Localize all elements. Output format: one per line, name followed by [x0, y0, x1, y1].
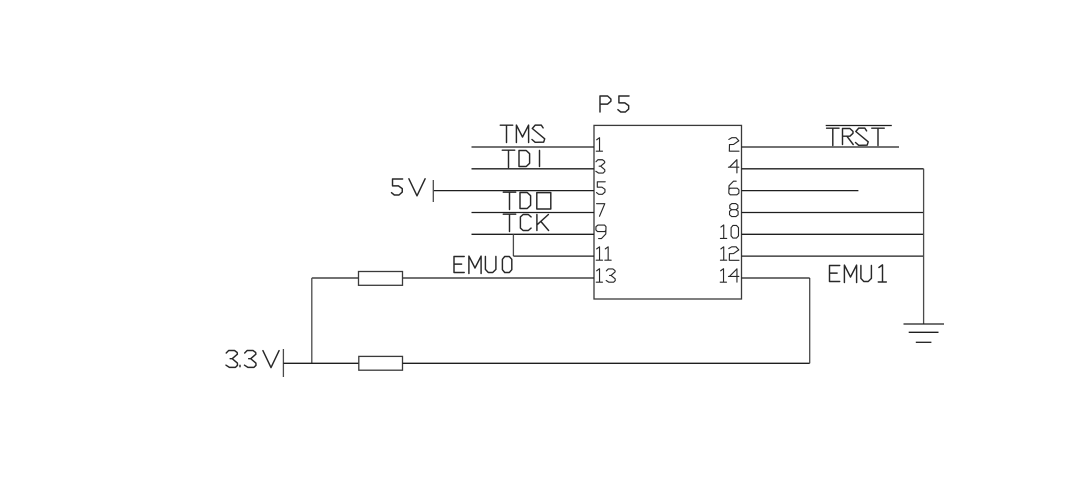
wire vertical up to pin 14 [809, 278, 811, 363]
wire to pin 11 [513, 255, 594, 257]
pin 2 number [729, 138, 739, 152]
wire TDO to pin 7 [472, 212, 595, 214]
net label TCK [503, 214, 548, 231]
wire pin 8 to ground bus [742, 212, 924, 214]
power label 3.3V [226, 351, 279, 368]
wire pin 2 to TRST [742, 146, 900, 148]
power label 5V [392, 179, 426, 196]
pin 13 number [596, 269, 615, 283]
wire junction to resistor left lead [312, 277, 359, 279]
net label TRST [827, 128, 885, 145]
wire pin 10 to ground bus [742, 233, 924, 235]
wire TDI to pin 3 [472, 168, 595, 170]
wire resistor to pin 13 (EMU0 net) [403, 277, 595, 279]
ground symbol [904, 324, 945, 342]
net label EMU0 [454, 256, 512, 273]
pin 12 number [720, 247, 739, 261]
wire 5V to pin 5 [434, 190, 594, 192]
5V supply terminal bar [432, 180, 434, 202]
wire pin 14 stub [742, 277, 810, 279]
wire pin 12 to ground bus [742, 255, 924, 257]
overline of TRST label [826, 125, 892, 127]
connector P5 body [594, 125, 742, 299]
wire vertical TCK net down to pin 11 [512, 234, 514, 256]
resistor EMU1 pull-up [359, 356, 403, 370]
wire pin 6 stub [742, 190, 859, 192]
wire 3.3V to resistor left lead [283, 362, 358, 364]
pin 9 number [596, 225, 606, 239]
net label TMS [500, 125, 544, 142]
wire resistor to bottom-right corner [403, 362, 810, 364]
wire vertical junction 3.3V rail up to EMU0 branch [311, 278, 313, 363]
pin 7 number [597, 204, 605, 217]
resistor EMU0 pull-up [359, 272, 403, 286]
connector reference designator P5 [600, 96, 629, 112]
pin 11 number [596, 247, 611, 260]
wire ground bus vertical [923, 169, 925, 324]
3.3V supply terminal bar [282, 349, 284, 377]
wire TMS to pin 1 [472, 146, 595, 148]
pin 1 number [596, 138, 602, 151]
pin 6 number [729, 181, 739, 195]
net label EMU1 [830, 265, 887, 283]
pin 10 number [720, 225, 738, 238]
net label TDO (last glyph shown as box) [503, 192, 551, 209]
pin 4 number [728, 160, 738, 173]
pin 3 number [596, 160, 605, 173]
pin 8 number [730, 204, 739, 217]
wire TCK to pin 9 [472, 233, 595, 235]
pin 5 number [597, 182, 606, 195]
pin 14 number [720, 269, 739, 282]
wire pin 4 to ground bus [742, 168, 924, 170]
net label TDI [502, 150, 539, 167]
